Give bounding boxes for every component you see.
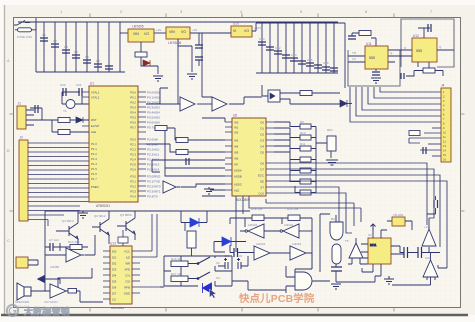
wire buzzer stem: [336, 215, 375, 282]
capacitor C26: [35, 105, 38, 113]
sheet outer bottom thick line: [1, 314, 468, 316]
svg-text:P2.2: P2.2: [130, 148, 136, 152]
diode D2: [76, 117, 83, 123]
wire branch v6: [86, 22, 88, 72]
svg-text:P0.6/AD6: P0.6/AD6: [147, 121, 160, 125]
svg-text:P3.4: P3.4: [130, 195, 136, 199]
adc U5: [232, 114, 266, 203]
wire q1 base: [56, 211, 78, 244]
wire bank2 v6: [301, 23, 303, 73]
resistor column R12B: [300, 168, 311, 173]
fuse F1: [18, 28, 32, 32]
svg-text:LM324: LM324: [256, 242, 266, 246]
svg-text:VIN: VIN: [133, 32, 139, 36]
wire branch v7: [97, 22, 99, 72]
wire J2 pin4: [28, 156, 89, 158]
wire inv out: [181, 184, 210, 187]
svg-text:P1.3: P1.3: [91, 157, 97, 161]
wire right edge drop: [438, 265, 447, 268]
svg-text:Q1 9013: Q1 9013: [62, 219, 74, 223]
audio amp U7: [50, 284, 70, 298]
wire q3 base: [117, 211, 135, 240]
resistor R6: [155, 126, 167, 131]
capacitor C31 polarized: [237, 258, 241, 269]
vco chip U17: [368, 238, 391, 264]
wire bank2 v2: [269, 23, 271, 73]
svg-text:P0.1: P0.1: [130, 96, 136, 100]
comparator U14A: [245, 224, 264, 238]
wire u6a out: [85, 235, 95, 255]
svg-text:ADDC: ADDC: [234, 183, 242, 187]
svg-text:DI1: DI1: [112, 256, 117, 260]
wire J2 pin1: [28, 142, 89, 144]
switch S2: [198, 257, 210, 264]
svg-text:IN2: IN2: [234, 131, 239, 135]
capacitor C25: [79, 88, 82, 96]
wire connector lower stub1: [432, 127, 441, 129]
svg-text:IN6: IN6: [234, 157, 239, 161]
small opamp U16: [349, 243, 363, 258]
wire bus L4: [368, 87, 441, 104]
diode D1: [143, 60, 150, 66]
switch S3 contacts: [197, 278, 199, 280]
svg-text:MC1: MC1: [370, 243, 377, 247]
svg-text:P2.4: P2.4: [130, 158, 136, 162]
wire crystal net: [62, 92, 89, 104]
wire J2 pin18: [28, 220, 48, 227]
resistor R4: [58, 130, 70, 135]
wire J2 pin9: [28, 178, 89, 180]
svg-text:WR: WR: [125, 262, 130, 266]
svg-text:P0.6: P0.6: [130, 121, 136, 125]
frame zone ticks bottom: [90, 308, 394, 312]
wire r5 out: [312, 92, 340, 94]
diode D3: [340, 100, 347, 107]
svg-text:C7 1uF: C7 1uF: [49, 238, 59, 242]
svg-text:Y1: Y1: [63, 109, 67, 113]
svg-text:VCC: VCC: [124, 250, 130, 254]
speaker LS1: [17, 283, 31, 300]
capacitor C3: [62, 50, 70, 53]
svg-text:P3.3/INT1: P3.3/INT1: [147, 190, 161, 194]
wire u17 bottom pins: [362, 264, 381, 282]
capacitor C16: [306, 63, 314, 66]
mcu right pin stubs: [138, 92, 146, 196]
wire cap-bank2 top rail: [252, 23, 338, 31]
regulator U9 7806: [166, 27, 190, 45]
dac left pin stubs: [103, 251, 110, 299]
svg-text:DI2: DI2: [112, 262, 117, 266]
wire bank2 v9: [325, 23, 327, 73]
connector J1: [17, 102, 34, 130]
wire buffer out: [229, 97, 262, 104]
resistor R16: [171, 261, 188, 267]
wire c35 out: [422, 247, 441, 253]
wire J2 pin6: [28, 165, 89, 167]
wire branch v4: [65, 22, 67, 72]
comparator U14C: [254, 246, 270, 260]
svg-text:P0.0/AD0: P0.0/AD0: [147, 91, 160, 95]
buzzer gate shape: [330, 222, 343, 240]
wire bank2 v5: [293, 23, 295, 73]
inverter U4A: [163, 181, 181, 193]
capacitor C34: [404, 247, 408, 258]
capacitor C1: [40, 38, 48, 41]
svg-text:VIN: VIN: [169, 30, 175, 34]
wire u7 out: [66, 291, 103, 302]
svg-text:DI0: DI0: [112, 250, 117, 254]
wire dip2 bottom drop1: [235, 196, 237, 252]
wire mcu to buffers: [146, 88, 180, 104]
svg-text:PSEN: PSEN: [91, 185, 99, 189]
dac right pin stubs: [132, 251, 140, 293]
svg-text:P0.3: P0.3: [130, 106, 136, 110]
svg-text:R16 1K: R16 1K: [171, 257, 181, 261]
wire bus L5: [374, 87, 441, 98]
svg-text:P2.4/A12: P2.4/A12: [147, 158, 160, 162]
wire busB w3: [274, 175, 440, 247]
svg-text:P3.2: P3.2: [130, 185, 136, 189]
connector J2: [19, 136, 28, 222]
svg-text:U12: U12: [413, 34, 419, 38]
svg-text:P2.6: P2.6: [130, 168, 136, 172]
svg-text:P3.3: P3.3: [130, 190, 136, 194]
wire u17 right pins: [391, 246, 404, 254]
wire c36 net: [427, 196, 436, 214]
wire dip2 bottom drop2: [242, 196, 244, 214]
wire busB w5: [274, 187, 339, 238]
svg-text:P2.3: P2.3: [130, 153, 136, 157]
capacitor C4: [72, 55, 80, 58]
svg-text:U10: U10: [233, 22, 239, 26]
power flag VCC1: [371, 224, 376, 230]
wire and inputs: [286, 266, 295, 293]
wire bus L1: [350, 87, 441, 122]
timer U11: [365, 42, 388, 69]
watermark logo ring: [7, 305, 70, 317]
wire comparator rail: [230, 214, 330, 272]
svg-text:P0.4: P0.4: [130, 111, 136, 115]
svg-text:P2.5/A13: P2.5/A13: [147, 163, 160, 167]
svg-text:U13: U13: [110, 242, 116, 246]
svg-text:SPEAKER: SPEAKER: [15, 300, 30, 304]
svg-text:C14: C14: [291, 53, 297, 57]
wire reg1 output: [154, 32, 166, 34]
svg-text:R14 10K: R14 10K: [68, 240, 80, 244]
svg-text:P1.7: P1.7: [91, 177, 97, 181]
adc left pin stubs: [225, 122, 232, 190]
svg-text:BZ1: BZ1: [331, 217, 337, 221]
svg-text:P3.4/T0: P3.4/T0: [147, 195, 158, 199]
connector J3: [16, 257, 28, 268]
wire branch v8: [108, 22, 110, 72]
svg-text:IN7: IN7: [234, 163, 239, 167]
svg-text:+6V: +6V: [192, 28, 197, 32]
svg-text:LM324: LM324: [284, 223, 294, 227]
cursor arrow: [210, 289, 217, 298]
svg-text:R17 1K: R17 1K: [171, 272, 181, 276]
svg-text:P3.0: P3.0: [130, 175, 136, 179]
svg-text:R10: R10: [300, 131, 306, 135]
frame zone ticks top: [90, 14, 394, 18]
svg-text:XFE: XFE: [125, 268, 131, 272]
svg-text:XTAL2: XTAL2: [91, 96, 100, 100]
diode D5 blue: [190, 218, 199, 227]
diode D7: [38, 276, 45, 283]
capacitor C21: [372, 72, 380, 75]
capacitor C35: [418, 247, 422, 258]
wire reg1 lower branch: [141, 42, 158, 66]
switch S3: [198, 272, 210, 279]
mcu left pin stubs: [82, 92, 89, 132]
svg-text:+12V: +12V: [254, 26, 261, 30]
svg-text:LM78L06: LM78L06: [168, 41, 182, 45]
wire fuse feed: [15, 18, 36, 72]
svg-text:DAC0832: DAC0832: [111, 306, 124, 310]
svg-text:J1: J1: [18, 102, 22, 106]
svg-text:ADDB: ADDB: [234, 175, 242, 179]
svg-text:IN3: IN3: [234, 139, 239, 143]
svg-text:C30: C30: [224, 254, 230, 258]
wire busB w4: [274, 181, 447, 268]
wire to timer block: [338, 23, 345, 88]
svg-text:P2.1: P2.1: [130, 143, 136, 147]
wire busB w7: [266, 199, 354, 226]
wire bank2 v10: [333, 23, 335, 73]
adc right pin stubs: [266, 122, 274, 193]
svg-text:U11: U11: [366, 42, 372, 46]
wire dip2 left net1: [158, 128, 225, 140]
svg-text:XTAL1: XTAL1: [91, 91, 100, 95]
resistor R14: [70, 245, 82, 250]
resistor column R12: [300, 157, 311, 162]
wire U12 right pin: [437, 49, 454, 51]
svg-text:P0.0: P0.0: [130, 91, 136, 95]
wire resistor column feeds: [290, 122, 316, 193]
svg-text:P0.5/AD5: P0.5/AD5: [147, 116, 160, 120]
svg-text:555: 555: [416, 49, 422, 53]
wire busB w1: [274, 163, 427, 225]
svg-text:U5: U5: [233, 114, 237, 118]
svg-text:P3.0/RXD: P3.0/RXD: [147, 175, 161, 179]
svg-text:LM324: LM324: [292, 242, 302, 246]
svg-text:T5: T5: [345, 239, 349, 243]
resistor R20: [359, 31, 371, 36]
svg-text:U1: U1: [90, 82, 94, 86]
wire connector lower stub3: [409, 138, 441, 143]
resistor R19: [288, 215, 300, 221]
resistor R18: [252, 215, 264, 221]
wire reg2 output net: [178, 33, 231, 104]
svg-text:IN5: IN5: [234, 151, 239, 155]
svg-text:C30: C30: [60, 83, 66, 87]
wire buffer link: [197, 103, 212, 105]
wire U11 top pin: [352, 33, 376, 46]
svg-text:D4: D4: [260, 145, 264, 149]
wire switch block frame: [164, 256, 232, 286]
wire J2 pin3: [28, 151, 89, 153]
wire connector lower stub4: [428, 143, 441, 145]
capacitor C30 polarized: [224, 258, 228, 269]
svg-text:C12: C12: [275, 46, 281, 50]
wire bus L3: [362, 87, 441, 110]
switch S2 contacts: [197, 263, 199, 265]
resistor R3: [58, 118, 70, 123]
wire c32 net: [230, 245, 254, 253]
svg-text:C2: C2: [53, 39, 57, 43]
svg-text:ILE: ILE: [126, 256, 130, 260]
inverter U6A: [66, 248, 85, 262]
resistor R7: [176, 138, 188, 143]
svg-text:C1: C1: [42, 33, 46, 37]
svg-text:UA8: UA8: [425, 256, 431, 260]
wire u14d out: [295, 253, 312, 277]
svg-text:DI3: DI3: [112, 268, 117, 272]
ground GND6: [78, 211, 88, 218]
wire d7 link: [45, 279, 61, 284]
resistor R22: [409, 131, 420, 136]
svg-text:P1.1: P1.1: [91, 147, 97, 151]
photo left edge line: [4, 5, 6, 314]
capacitor C18: [322, 67, 330, 70]
capacitor C33: [331, 267, 342, 271]
ground GND8: [384, 276, 394, 284]
capacitor C17: [314, 65, 322, 68]
connector J4: [441, 84, 451, 163]
svg-text:C18: C18: [323, 61, 329, 65]
svg-text:A: A: [7, 58, 10, 63]
comparator U14D: [290, 246, 306, 260]
diode D4 blue: [222, 237, 231, 246]
wire connector lower stub2: [424, 132, 441, 134]
wire connector lower stub5: [420, 149, 441, 151]
svg-text:S2: S2: [216, 261, 220, 265]
logic chip U18: [392, 217, 405, 226]
wire bus L2: [356, 87, 441, 116]
wire J2 pin17: [28, 214, 64, 216]
wire J2 pin7: [28, 169, 89, 171]
resistor R21: [423, 68, 435, 73]
svg-text:P2.0: P2.0: [130, 138, 136, 142]
and gate U15: [295, 272, 312, 290]
capacitor C5: [83, 60, 91, 63]
svg-text:R18 10K: R18 10K: [251, 207, 263, 211]
capacitor C12: [274, 51, 282, 54]
svg-text:P0.3/AD3: P0.3/AD3: [147, 106, 160, 110]
wire busB w2: [274, 169, 434, 218]
wire u16 nets: [348, 238, 368, 264]
ground GND5: [326, 160, 338, 165]
svg-text:P2.5: P2.5: [130, 163, 136, 167]
wire cap-bank2 bottom rail: [256, 72, 338, 74]
wire opto in: [262, 85, 268, 96]
svg-text:EA/VP: EA/VP: [91, 124, 99, 128]
wire j3 pins: [28, 260, 38, 265]
capacitor C24: [63, 88, 66, 96]
svg-text:P1.0: P1.0: [91, 142, 97, 146]
svg-text:IN4: IN4: [234, 145, 239, 149]
wire u17 top pins: [373, 230, 387, 238]
wire J2 pin15: [28, 205, 80, 207]
mcu U1 AT89C51: [89, 82, 138, 209]
svg-text:RP1: RP1: [327, 128, 333, 132]
wire d3 out: [347, 103, 352, 105]
regulator U10 7812: [231, 22, 252, 38]
capacitor C27: [423, 147, 426, 154]
svg-text:R11: R11: [300, 142, 306, 146]
wire J2 pin14: [28, 201, 89, 203]
svg-text:S3: S3: [216, 276, 220, 280]
resistor R23: [187, 231, 196, 248]
svg-text:大数据营销: 大数据营销: [24, 306, 70, 317]
wire r23 stem: [192, 248, 199, 256]
resistor column R9: [300, 124, 311, 129]
wire r14 to inverter: [45, 247, 88, 255]
svg-text:IO1: IO1: [125, 274, 130, 278]
capacitor C36: [434, 200, 438, 208]
svg-text:Q2 9012: Q2 9012: [94, 214, 106, 218]
svg-text:RST: RST: [91, 118, 97, 122]
svg-text:P0.5: P0.5: [130, 116, 136, 120]
svg-text:C31: C31: [76, 83, 82, 87]
svg-text:D1: D1: [260, 127, 264, 131]
svg-text:P1.4: P1.4: [91, 162, 97, 166]
wire J2 pin8: [28, 174, 89, 176]
svg-text:VO: VO: [181, 30, 186, 34]
resistor R15: [118, 237, 128, 243]
svg-text:74LS04: 74LS04: [393, 213, 404, 217]
svg-text:P3.1: P3.1: [130, 180, 136, 184]
svg-text:DI6: DI6: [112, 286, 117, 290]
crystal Y1: [66, 100, 75, 109]
wire u14a out: [240, 230, 281, 232]
svg-text:DI7: DI7: [112, 292, 117, 296]
wire adc right short nets: [274, 122, 290, 152]
svg-text:UA741CD: UA741CD: [44, 300, 58, 304]
wire dac right nets: [140, 214, 160, 287]
svg-text:P2.0/A8: P2.0/A8: [147, 138, 158, 142]
wire U12 bottom pins: [418, 62, 429, 68]
svg-text:RFB: RFB: [124, 286, 130, 290]
op-amp U2A: [180, 97, 195, 111]
resistor R8: [176, 150, 188, 155]
svg-text:CV: CV: [352, 57, 356, 61]
wire dip2 clock feed: [202, 97, 225, 122]
capacitor C32: [234, 248, 238, 257]
timer U12: [412, 34, 437, 62]
wire bus L6: [380, 87, 441, 92]
wire branch v9: [119, 22, 121, 72]
svg-text:AT89C51: AT89C51: [96, 204, 110, 208]
svg-text:IN0: IN0: [234, 121, 239, 125]
svg-text:P2.2/A10: P2.2/A10: [147, 148, 160, 152]
wire bottom-left top rail: [45, 211, 250, 291]
capacitor C8: [195, 45, 203, 48]
svg-text:DI4: DI4: [112, 274, 117, 278]
svg-text:LM324: LM324: [248, 223, 258, 227]
opamp U19 up: [422, 229, 436, 246]
wire busB w6: [274, 193, 352, 233]
potentiometer R13: [327, 136, 336, 151]
svg-text:D3: D3: [260, 139, 264, 143]
svg-text:D5: D5: [260, 151, 264, 155]
wire u18 feed: [387, 221, 412, 230]
resistor column R10: [300, 135, 311, 140]
svg-text:P2.1/A9: P2.1/A9: [147, 143, 158, 147]
wire J2 pin11: [28, 187, 89, 189]
svg-text:D6: D6: [260, 162, 264, 166]
svg-text:LM386: LM386: [50, 265, 60, 269]
